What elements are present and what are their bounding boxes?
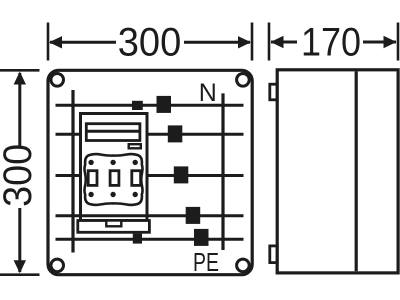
- fuse switch unit body: [81, 114, 148, 221]
- dimension 170: right arrowhead: [384, 36, 397, 48]
- fuse slot 2: [110, 171, 119, 186]
- side view cover split line: [355, 71, 358, 271]
- terminal square 2: [168, 125, 183, 142]
- svg-text:300: 300: [0, 144, 40, 207]
- enclosure front view outline: [48, 70, 252, 274]
- terminal square 4: [186, 207, 201, 224]
- fuse slot 1: [88, 171, 97, 186]
- terminal square 3: [174, 166, 189, 183]
- blob dot bottom-left: [88, 192, 93, 197]
- dimension 300 left: down arrowhead: [14, 260, 26, 273]
- dimension 300 top: dimension line: [50, 41, 116, 44]
- fuse cover blob: [84, 154, 142, 205]
- svg-text:PE: PE: [193, 247, 219, 277]
- corner screw bottom-right: [237, 259, 250, 272]
- dimension 300 left: extension line top: [0, 69, 40, 72]
- svg-text:170: 170: [301, 21, 361, 65]
- dimension 300 left: dimension line: [18, 73, 21, 146]
- side view mounting clip bottom: [270, 246, 277, 263]
- corner screw top-left: [51, 74, 64, 87]
- dimension 300 left: extension line bottom: [0, 273, 40, 276]
- dimension 300 top: extension line right: [251, 23, 254, 61]
- small terminal bottom: [133, 234, 142, 244]
- dimension 300 top: extension line left: [47, 23, 50, 61]
- dimension 300 top: right arrowhead: [238, 36, 251, 48]
- enclosure side view outline: [277, 70, 398, 273]
- small terminal top: [132, 101, 143, 110]
- wire L1: [56, 104, 244, 107]
- unit label window: [86, 124, 140, 141]
- blob dot top-right: [133, 160, 138, 165]
- blob dot bottom-mid: [110, 192, 115, 197]
- bottom bar notch: [106, 221, 121, 227]
- unit label window divider: [86, 130, 140, 133]
- corner screw bottom-left: [51, 259, 64, 272]
- wire 4: [56, 214, 244, 217]
- dimension 170: left arrowhead: [271, 36, 284, 48]
- dimension 170: dimension line: [271, 41, 297, 44]
- terminal square 5: [194, 229, 209, 246]
- wire L3: [56, 174, 244, 177]
- side view mounting clip top: [270, 84, 277, 100]
- unit indicator rect: [129, 144, 141, 148]
- busbar left: [71, 90, 74, 253]
- blob dot top-mid: [110, 160, 115, 165]
- wire 4 over unit: [80, 214, 148, 217]
- svg-text:N: N: [199, 79, 217, 107]
- busbar N/PE right: [221, 93, 224, 250]
- wire L2: [56, 133, 244, 136]
- dimension 300 left: up arrowhead: [14, 72, 26, 85]
- terminal square 1: [157, 96, 172, 113]
- dimension 170: extension line left: [268, 23, 271, 61]
- fuse slot 3: [132, 171, 141, 186]
- corner screw top-right: [237, 74, 250, 87]
- unit bottom bar: [78, 221, 150, 233]
- blob dot bottom-right: [133, 192, 138, 197]
- blob dot top-left: [88, 160, 93, 165]
- dimension 170: extension line right: [397, 23, 400, 61]
- wire 5: [56, 238, 244, 241]
- svg-text:300: 300: [118, 21, 182, 65]
- dimension 300 top: left arrowhead: [49, 36, 62, 48]
